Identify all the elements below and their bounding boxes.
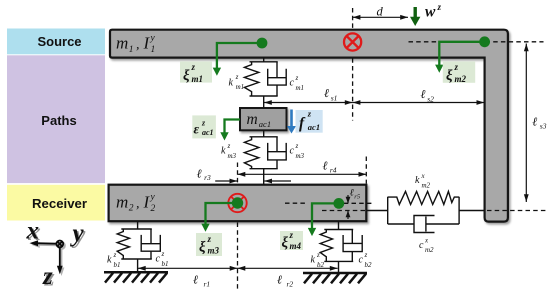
sidebar Source box <box>7 29 105 55</box>
bottom bar of k_b1/c_b1 <box>121 258 152 260</box>
green arrow xi_m1 (elbow) <box>217 43 262 70</box>
svg-text:k: k <box>107 255 112 266</box>
dashed vertical at m2 COM (x=237.5) <box>237 163 239 290</box>
green arrow eps_ac1 (elbow from m_ac1) <box>225 120 241 135</box>
top bar of k_b1/c_b1 <box>121 228 152 230</box>
dimension l_s2 line <box>353 102 485 104</box>
svg-text:d: d <box>377 5 384 19</box>
svg-text:z: z <box>295 74 299 82</box>
svg-text:,: , <box>136 197 140 212</box>
svg-text:Source: Source <box>37 34 81 49</box>
svg-text:z: z <box>42 263 53 290</box>
svg-text:k: k <box>415 175 420 186</box>
dashed vertical through m1 COM (x=352.6) <box>352 8 354 121</box>
dimension l_r4 line <box>238 173 367 175</box>
svg-text:ac1: ac1 <box>202 128 214 137</box>
svg-text:m1: m1 <box>236 83 245 91</box>
svg-text:z: z <box>437 2 442 12</box>
svg-text:ℓ: ℓ <box>350 188 354 199</box>
svg-text:m: m <box>116 193 128 212</box>
svg-text:z: z <box>207 234 212 244</box>
svg-text:m1: m1 <box>296 84 305 92</box>
dimension l_s3 line <box>525 44 527 203</box>
label xi_m4^z box <box>280 231 303 250</box>
svg-text:ℓ: ℓ <box>193 272 198 286</box>
red COM symbol on m2 (circle cross) <box>228 194 246 212</box>
green arrow xi_m2 (elbow) <box>439 42 484 67</box>
svg-text:m: m <box>116 34 128 53</box>
top bar of k_b2/c_b2 <box>324 229 353 231</box>
svg-text:y: y <box>70 220 85 247</box>
label xi_m1^z box <box>180 61 212 82</box>
svg-text:c: c <box>419 240 424 251</box>
blue arrow f_ac1 <box>290 110 293 128</box>
svg-text:m2: m2 <box>425 246 434 254</box>
green node dot on m1 right (path2 attach) <box>479 36 490 47</box>
svg-text:ξ: ξ <box>446 68 453 84</box>
bottom bar of k_b2/c_b2 <box>324 260 353 262</box>
green force arrow w^z <box>414 7 417 19</box>
dimension l_r5 outside arrows <box>347 195 349 203</box>
svg-text:z: z <box>316 251 320 259</box>
beam m2 (receiver mass) <box>109 185 367 222</box>
svg-text:Paths: Paths <box>41 113 76 128</box>
svg-text:c: c <box>359 255 364 266</box>
svg-text:w: w <box>425 4 436 21</box>
dimension d line <box>353 16 408 18</box>
dashed horizontal source beam axis <box>409 41 544 43</box>
sidebar Paths box <box>7 55 105 183</box>
svg-text:m4: m4 <box>290 241 302 251</box>
dimension l_s1 line <box>264 102 353 104</box>
wire: k_m2/c_m2 right bar to column <box>459 210 485 212</box>
svg-text:z: z <box>364 251 368 259</box>
svg-text:z: z <box>307 109 312 119</box>
damper c_m1 <box>268 62 287 96</box>
label xi_m2^z box <box>443 61 475 82</box>
svg-text:x: x <box>424 237 429 245</box>
svg-text:c: c <box>290 78 295 89</box>
svg-text:m1: m1 <box>192 74 204 84</box>
damper c_m2 (horizontal) <box>388 216 459 233</box>
svg-text:Receiver: Receiver <box>32 196 87 211</box>
ground under k_b1 <box>104 272 168 282</box>
damper c_b2 <box>343 230 362 262</box>
wire: stem k_b2 to ground <box>338 261 340 273</box>
svg-text:ε: ε <box>194 122 200 137</box>
svg-text:m2: m2 <box>455 74 467 84</box>
damper c_m3 <box>268 137 287 169</box>
coordinate axes (x left, z down, y into page) <box>35 241 63 269</box>
svg-text:r2: r2 <box>287 280 294 289</box>
green node dot on m1 (path1 attach) <box>257 38 268 49</box>
dashed horizontal k_m2 axis inside beam m2 <box>322 210 367 212</box>
dimension l_r1 line <box>138 267 238 269</box>
dashed horizontal m2 axis segment <box>285 202 372 204</box>
svg-text:ξ: ξ <box>282 235 289 251</box>
svg-text:x: x <box>26 217 40 244</box>
dimension l_r3 outside arrows <box>215 180 237 182</box>
svg-text:ℓ: ℓ <box>421 87 426 101</box>
left bar of k_m2/c_m2 <box>387 197 389 224</box>
bottom bar of k_m1/c_m1 <box>250 95 278 97</box>
svg-text:x: x <box>421 172 426 180</box>
svg-text:ac1: ac1 <box>259 119 271 129</box>
svg-text:z: z <box>289 230 294 240</box>
svg-text:m: m <box>247 111 258 128</box>
svg-text:k: k <box>229 78 234 89</box>
right bar of k_m2/c_m2 <box>458 197 460 224</box>
svg-text:z: z <box>161 250 165 258</box>
dimension l_r2 line <box>238 267 338 269</box>
damper c_b1 <box>141 229 160 259</box>
wire: stem bottom bar to m_ac1 <box>263 96 265 108</box>
coordinate axes shadow <box>27 219 86 292</box>
wire: stem beam m2 to k_b2/c_b2 top bar <box>338 221 340 229</box>
wire: stem bottom bar to beam m2 <box>263 169 265 185</box>
sidebar Receiver box <box>7 185 105 221</box>
green arrow xi_m4 (elbow) <box>312 203 339 229</box>
green node dot on m2 COM (path3 attach) <box>232 197 243 208</box>
svg-text:z: z <box>295 142 299 150</box>
svg-text:ℓ: ℓ <box>532 115 537 129</box>
svg-text:z: z <box>191 62 196 72</box>
svg-text:z: z <box>113 251 117 259</box>
svg-text:y: y <box>150 34 156 44</box>
wire: stem m_ac1 to k_m3/c_m3 top bar <box>263 130 265 137</box>
svg-text:m2: m2 <box>422 181 431 189</box>
ground under k_b2 <box>303 273 367 283</box>
svg-text:b1: b1 <box>162 260 169 268</box>
svg-text:c: c <box>156 254 161 265</box>
svg-text:2: 2 <box>151 204 156 214</box>
svg-text:k: k <box>311 255 316 266</box>
svg-text:m3: m3 <box>296 152 305 160</box>
bottom bar of k_m3/c_m3 <box>250 168 278 170</box>
label xi_m3^z box <box>196 233 222 256</box>
wire: beam m2 to k_m2/c_m2 left bar <box>367 210 388 212</box>
svg-text:c: c <box>290 146 295 157</box>
svg-text:r5: r5 <box>354 194 361 201</box>
green node dot on m2 (path4 attach) <box>333 198 344 209</box>
spring k_b1 <box>117 229 129 259</box>
top bar of k_m1/c_m1 <box>250 61 278 63</box>
svg-text:b1: b1 <box>114 261 121 269</box>
svg-text:1: 1 <box>129 45 134 55</box>
svg-text:,: , <box>136 38 140 53</box>
svg-text:m3: m3 <box>228 152 237 160</box>
spring k_m2 (horizontal) <box>388 191 459 204</box>
spring k_m1 <box>244 62 258 96</box>
svg-text:ℓ: ℓ <box>277 272 282 286</box>
svg-text:ξ: ξ <box>183 68 190 84</box>
svg-text:z: z <box>227 142 231 150</box>
svg-text:r1: r1 <box>204 280 211 289</box>
svg-text:s3: s3 <box>540 121 547 130</box>
svg-text:ℓ: ℓ <box>197 166 202 180</box>
svg-text:s1: s1 <box>331 93 338 102</box>
svg-text:r4: r4 <box>330 165 337 174</box>
top bar of k_m3/c_m3 <box>250 136 278 138</box>
spring k_b2 <box>320 230 332 262</box>
svg-text:b2: b2 <box>365 261 373 269</box>
beam m1 + right column (source structure, gamma shape) <box>110 30 508 222</box>
dashed vertical at m2 right edge (x=366.3) <box>365 157 367 184</box>
svg-text:r3: r3 <box>204 173 211 182</box>
svg-text:2: 2 <box>129 204 134 214</box>
spring k_m3 <box>244 137 258 169</box>
red COM symbol on m1 (circle cross) <box>344 33 361 50</box>
wire: stem k_b1 to ground <box>137 259 139 272</box>
svg-text:k: k <box>221 146 226 157</box>
green arrow xi_m3 (elbow) <box>206 203 238 226</box>
svg-text:s2: s2 <box>427 94 434 103</box>
svg-text:z: z <box>454 62 459 72</box>
wire: stem beam m1 to k_m1/c_m1 top bar <box>263 58 265 62</box>
svg-text:1: 1 <box>151 45 156 55</box>
svg-text:y: y <box>150 192 156 202</box>
svg-text:ℓ: ℓ <box>323 159 328 173</box>
label f_ac1^z box <box>296 110 323 133</box>
dashed horizontal k_m2 axis through column <box>487 210 546 212</box>
label eps_ac1^z box <box>192 115 216 138</box>
wire: stem beam m2 to k_b1/c_b1 top bar <box>137 221 139 229</box>
svg-text:ξ: ξ <box>199 240 206 256</box>
mass m_ac1 box <box>240 108 287 130</box>
svg-text:ℓ: ℓ <box>324 86 329 100</box>
svg-text:ac1: ac1 <box>308 122 320 132</box>
svg-text:z: z <box>235 73 239 81</box>
svg-text:m3: m3 <box>208 246 220 256</box>
